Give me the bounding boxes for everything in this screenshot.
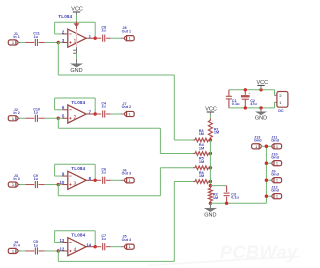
svg-text:1: 1 <box>12 116 14 121</box>
svg-text:GND: GND <box>255 115 267 121</box>
svg-text:Gnd: Gnd <box>271 173 279 177</box>
svg-text:TL084: TL084 <box>71 233 85 238</box>
svg-text:In 2: In 2 <box>13 111 19 115</box>
svg-text:Out 2: Out 2 <box>122 105 131 109</box>
svg-text:1: 1 <box>255 144 257 149</box>
svg-text:+: + <box>248 92 250 96</box>
svg-text:Out 4: Out 4 <box>122 238 132 242</box>
svg-text:1: 1 <box>12 182 14 187</box>
svg-text:In 4: In 4 <box>13 244 20 248</box>
svg-text:1u: 1u <box>101 171 106 175</box>
svg-text:1: 1 <box>129 178 131 183</box>
svg-text:GND: GND <box>70 68 82 74</box>
svg-text:1u: 1u <box>34 35 39 39</box>
svg-text:1u: 1u <box>101 237 106 241</box>
svg-text:10: 10 <box>60 180 65 185</box>
svg-text:DC: DC <box>278 109 284 113</box>
svg-text:In 1: In 1 <box>13 35 19 39</box>
svg-text:Out 3: Out 3 <box>122 171 131 175</box>
svg-text:0.1u: 0.1u <box>231 196 239 200</box>
svg-text:Gnd: Gnd <box>254 139 262 143</box>
svg-text:1M: 1M <box>199 146 204 150</box>
svg-text:1: 1 <box>129 112 131 117</box>
svg-text:In 3: In 3 <box>13 177 19 181</box>
svg-text:1: 1 <box>276 178 278 183</box>
svg-text:TL084: TL084 <box>71 166 85 171</box>
svg-text:4: 4 <box>73 248 76 254</box>
svg-text:TL084: TL084 <box>58 14 72 19</box>
svg-text:1M: 1M <box>199 132 204 136</box>
svg-text:13: 13 <box>60 238 65 243</box>
svg-text:1: 1 <box>276 144 278 149</box>
svg-text:Out 1: Out 1 <box>122 29 131 33</box>
svg-text:1u: 1u <box>34 111 39 115</box>
svg-text:3: 3 <box>73 181 76 187</box>
svg-text:1: 1 <box>276 161 278 166</box>
svg-text:0.1u: 0.1u <box>232 102 240 106</box>
svg-text:1u: 1u <box>34 243 39 247</box>
svg-text:1u: 1u <box>101 29 106 33</box>
svg-text:1: 1 <box>279 100 281 105</box>
svg-text:1M: 1M <box>199 174 204 178</box>
svg-text:1M: 1M <box>213 196 218 200</box>
svg-text:1u: 1u <box>101 104 106 108</box>
svg-text:1: 1 <box>12 40 14 45</box>
svg-text:47u: 47u <box>250 102 257 106</box>
svg-text:1: 1 <box>12 248 14 253</box>
svg-text:Gnd: Gnd <box>271 189 279 193</box>
svg-text:TL084: TL084 <box>71 100 85 105</box>
svg-text:1: 1 <box>276 194 278 199</box>
svg-text:2: 2 <box>73 115 76 121</box>
svg-text:Gnd: Gnd <box>271 156 279 160</box>
svg-text:12: 12 <box>60 246 65 251</box>
svg-text:GND: GND <box>204 213 216 219</box>
svg-text:1: 1 <box>129 244 131 249</box>
svg-text:1M: 1M <box>199 160 204 164</box>
svg-text:Gnd: Gnd <box>271 139 279 143</box>
svg-text:1: 1 <box>129 36 131 41</box>
svg-text:2: 2 <box>279 93 281 98</box>
svg-text:1M: 1M <box>214 131 219 135</box>
svg-text:1u: 1u <box>34 177 39 181</box>
